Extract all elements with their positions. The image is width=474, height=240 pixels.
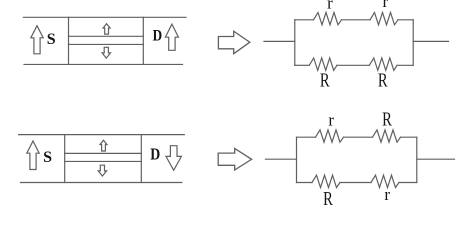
wire: upper spacer line of spin-valve 2 [65, 152, 142, 154]
arrow: implication arrow 1 (structure to circuit) [218, 31, 249, 54]
resistor r1 (top-left, circuit 1) [314, 13, 342, 25]
wire: top branch middle segment, circuit 2 [344, 136, 373, 138]
wire: left barrier vertical of spin-valve 1 [68, 17, 70, 64]
arrow: pinned layer magnetization down, spin-valve 1 [102, 47, 110, 58]
svg-text:r: r [327, 0, 333, 13]
wire: lower spacer line of spin-valve 2 [65, 160, 142, 162]
wire: bottom electrode line of spin-valve 2 [20, 182, 181, 184]
wire: top branch left segment, circuit 2 [297, 136, 316, 138]
wire: left vertical of parallel loop, circuit 2 [296, 137, 298, 182]
svg-text:S: S [47, 31, 56, 48]
wire: bottom branch middle segment, circuit 1 [337, 64, 369, 66]
resistor R4 (bottom-left, circuit 2) [312, 175, 340, 187]
svg-text:S: S [43, 149, 52, 166]
wire: left barrier vertical of spin-valve 2 [64, 135, 66, 183]
svg-text:R: R [382, 108, 392, 129]
arrow: drain magnetization down (D), spin-valve 2 [166, 146, 181, 171]
wire: top branch right segment, circuit 2 [401, 136, 417, 138]
arrow: free layer magnetization up, spin-valve 2 [100, 140, 107, 151]
svg-text:r: r [382, 0, 388, 11]
arrow: drain magnetization up (D), spin-valve 1 [165, 24, 178, 50]
wire: top electrode line of spin-valve 1 [23, 16, 186, 18]
wire: bottom branch right segment, circuit 1 [397, 64, 413, 66]
wire: top electrode line of spin-valve 2 [19, 134, 185, 136]
wire: bottom branch left segment, circuit 1 [295, 64, 309, 66]
arrow: source magnetization up (S), spin-valve 1 [31, 26, 43, 54]
wire: right vertical of parallel loop, circuit 1 [412, 20, 414, 66]
wire: left lead of circuit 2 [265, 158, 296, 160]
wire: top branch left segment, circuit 1 [295, 19, 314, 21]
arrow: pinned layer magnetization down, spin-valve 2 [98, 165, 106, 176]
svg-text:R: R [320, 70, 330, 91]
wire: bottom branch right segment, circuit 2 [399, 182, 417, 184]
arrow: source magnetization up (S), spin-valve 2 [27, 141, 39, 170]
wire: bottom electrode line of spin-valve 1 [24, 63, 183, 65]
wire: bottom branch left segment, circuit 2 [297, 182, 313, 184]
wire: right vertical of parallel loop, circuit 2 [416, 137, 418, 182]
arrow: implication arrow 2 (structure to circuit) [218, 148, 251, 170]
wire: left lead of circuit 1 [264, 40, 295, 42]
resistor R2 (bottom-right, circuit 1) [369, 58, 397, 70]
wire: left vertical of parallel loop, circuit 1 [294, 20, 296, 66]
svg-text:R: R [323, 188, 333, 209]
wire: right barrier vertical of spin-valve 1 [142, 17, 144, 64]
wire: right lead of circuit 1 [413, 40, 448, 42]
wire: lower spacer line of spin-valve 1 [69, 43, 144, 45]
wire: right barrier vertical of spin-valve 2 [140, 135, 142, 183]
arrow: free layer magnetization up, spin-valve 1 [103, 24, 110, 34]
svg-text:D: D [150, 145, 160, 164]
wire: bottom branch middle segment, circuit 2 [340, 182, 371, 184]
svg-text:R: R [378, 70, 388, 91]
resistor R3 (top-right, circuit 2) [373, 130, 401, 142]
resistor r3 (top-left, circuit 2) [316, 130, 344, 142]
resistor r4 (bottom-right, circuit 2) [371, 175, 399, 187]
wire: top branch middle segment, circuit 1 [342, 19, 371, 21]
wire: top branch right segment, circuit 1 [398, 19, 413, 21]
wire: upper spacer line of spin-valve 1 [69, 35, 144, 37]
wire: right lead of circuit 2 [417, 158, 455, 160]
resistor r2 (top-right, circuit 1) [370, 13, 398, 25]
resistor R1 (bottom-left, circuit 1) [309, 58, 337, 70]
svg-text:r: r [384, 185, 390, 204]
svg-text:D: D [153, 27, 163, 44]
svg-text:r: r [328, 111, 334, 130]
